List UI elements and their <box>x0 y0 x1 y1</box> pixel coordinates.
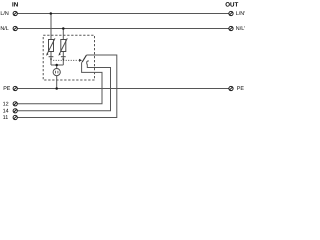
wire PE horizontal <box>17 88 228 90</box>
switch lever <box>82 55 86 62</box>
terminal 12 <box>13 102 17 106</box>
wire common bus <box>51 64 63 66</box>
svg-text:PE: PE <box>237 86 245 92</box>
wire arrester F1 bottom <box>50 52 52 66</box>
dashed enclosure box <box>43 35 94 80</box>
svg-text:11: 11 <box>3 115 9 121</box>
svg-text:L/N′: L/N′ <box>236 11 245 17</box>
wire L/N horizontal <box>17 13 228 15</box>
surge arrester F2 <box>60 38 68 54</box>
wire arrester F1 top drop <box>50 14 52 40</box>
terminal 11 <box>13 115 17 119</box>
svg-text:14: 14 <box>3 109 9 115</box>
svg-text:N/L: N/L <box>0 26 8 32</box>
wire bus to gas tube <box>56 65 58 69</box>
disconnector T-bar F1 <box>49 56 54 58</box>
terminal PE right <box>229 86 233 90</box>
arrowhead arrester F2 <box>59 53 61 56</box>
junction node L/N <box>50 12 53 15</box>
junction node bus <box>55 64 58 67</box>
svg-text:PE: PE <box>3 86 11 92</box>
disconnector arrow F1 <box>50 59 52 61</box>
wire arrester F2 top drop <box>62 29 64 40</box>
svg-text:L/N: L/N <box>0 11 8 17</box>
mechanical link arrowhead <box>79 59 82 62</box>
arrowhead arrester F1 <box>46 53 48 56</box>
wire N/L horizontal <box>17 28 228 30</box>
terminal N/L left <box>13 26 17 30</box>
svg-text:N/L′: N/L′ <box>236 26 245 32</box>
mechanical link dotted line <box>53 59 78 61</box>
terminal L/N left <box>13 11 17 15</box>
svg-text:OUT: OUT <box>225 2 238 9</box>
svg-text:12: 12 <box>3 102 9 108</box>
switch contact 14 hook <box>87 61 89 65</box>
junction node N/L <box>62 27 65 30</box>
disconnector T-bar F2 <box>61 56 66 58</box>
wire terminal 14 run <box>17 64 110 110</box>
svg-text:IN: IN <box>12 1 19 8</box>
wire terminal 11 run <box>17 55 116 118</box>
disconnector arrow F2 <box>62 59 64 61</box>
terminal N/L' right <box>229 26 233 30</box>
terminal 14 <box>13 109 17 113</box>
gas discharge tube <box>53 69 60 76</box>
junction node PE <box>55 87 58 90</box>
wire arrester F2 bottom <box>62 52 64 66</box>
wire terminal 12 run <box>17 62 102 104</box>
terminal L/N' right <box>229 11 233 15</box>
wire gas tube to PE <box>56 76 58 89</box>
surge arrester F1 <box>47 38 55 54</box>
terminal PE left <box>13 86 17 90</box>
